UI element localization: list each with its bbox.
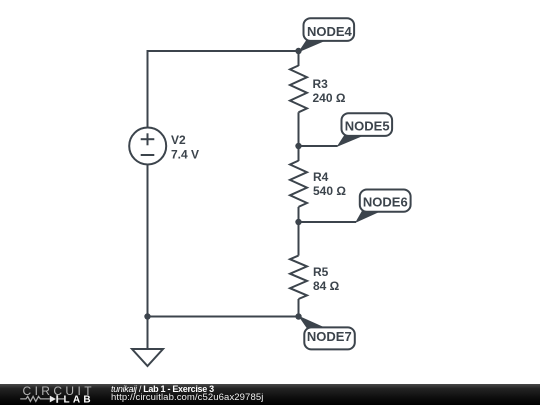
junction ground node bbox=[144, 313, 150, 319]
svg-text:540 Ω: 540 Ω bbox=[313, 184, 346, 198]
footer title text bbox=[111, 384, 214, 394]
resistor R3 bbox=[290, 66, 307, 113]
wire NODE6 to R5 bbox=[298, 222, 300, 256]
node NODE6 bbox=[295, 190, 410, 226]
node NODE5 bbox=[295, 113, 392, 149]
svg-text:R4: R4 bbox=[313, 170, 329, 184]
wire R3 to NODE5 bbox=[298, 112, 300, 146]
node NODE4 bbox=[295, 18, 354, 54]
svg-text:R5: R5 bbox=[313, 265, 329, 279]
svg-text:NODE4: NODE4 bbox=[307, 24, 353, 39]
voltage source V2 bbox=[129, 128, 166, 165]
footer url text bbox=[111, 392, 263, 403]
svg-text:240 Ω: 240 Ω bbox=[313, 91, 346, 105]
wire NODE5 to R4 bbox=[298, 146, 300, 161]
wire left lower bbox=[147, 165, 149, 317]
resistor R5 bbox=[290, 256, 307, 299]
svg-text:V2: V2 bbox=[171, 133, 186, 147]
svg-text:R3: R3 bbox=[313, 77, 329, 91]
wire top net bbox=[148, 50, 299, 52]
svg-text:7.4 V: 7.4 V bbox=[171, 148, 199, 162]
CircuitLab logo bbox=[16, 384, 100, 405]
svg-text:NODE6: NODE6 bbox=[363, 195, 408, 210]
wire NODE4 to R3 bbox=[298, 51, 300, 66]
wire R4 to NODE6 bbox=[298, 207, 300, 222]
footer bar bbox=[0, 384, 540, 405]
ground bbox=[132, 317, 163, 367]
svg-text:NODE7: NODE7 bbox=[307, 329, 352, 344]
wire R5 to NODE7 bbox=[298, 299, 300, 317]
svg-text:LAB: LAB bbox=[64, 395, 94, 405]
resistor R4 bbox=[290, 161, 307, 207]
svg-text:NODE5: NODE5 bbox=[345, 119, 390, 134]
svg-text:84 Ω: 84 Ω bbox=[313, 279, 340, 293]
wire bottom net bbox=[148, 316, 299, 318]
node NODE7 bbox=[295, 313, 355, 349]
wire left upper bbox=[147, 50, 149, 128]
